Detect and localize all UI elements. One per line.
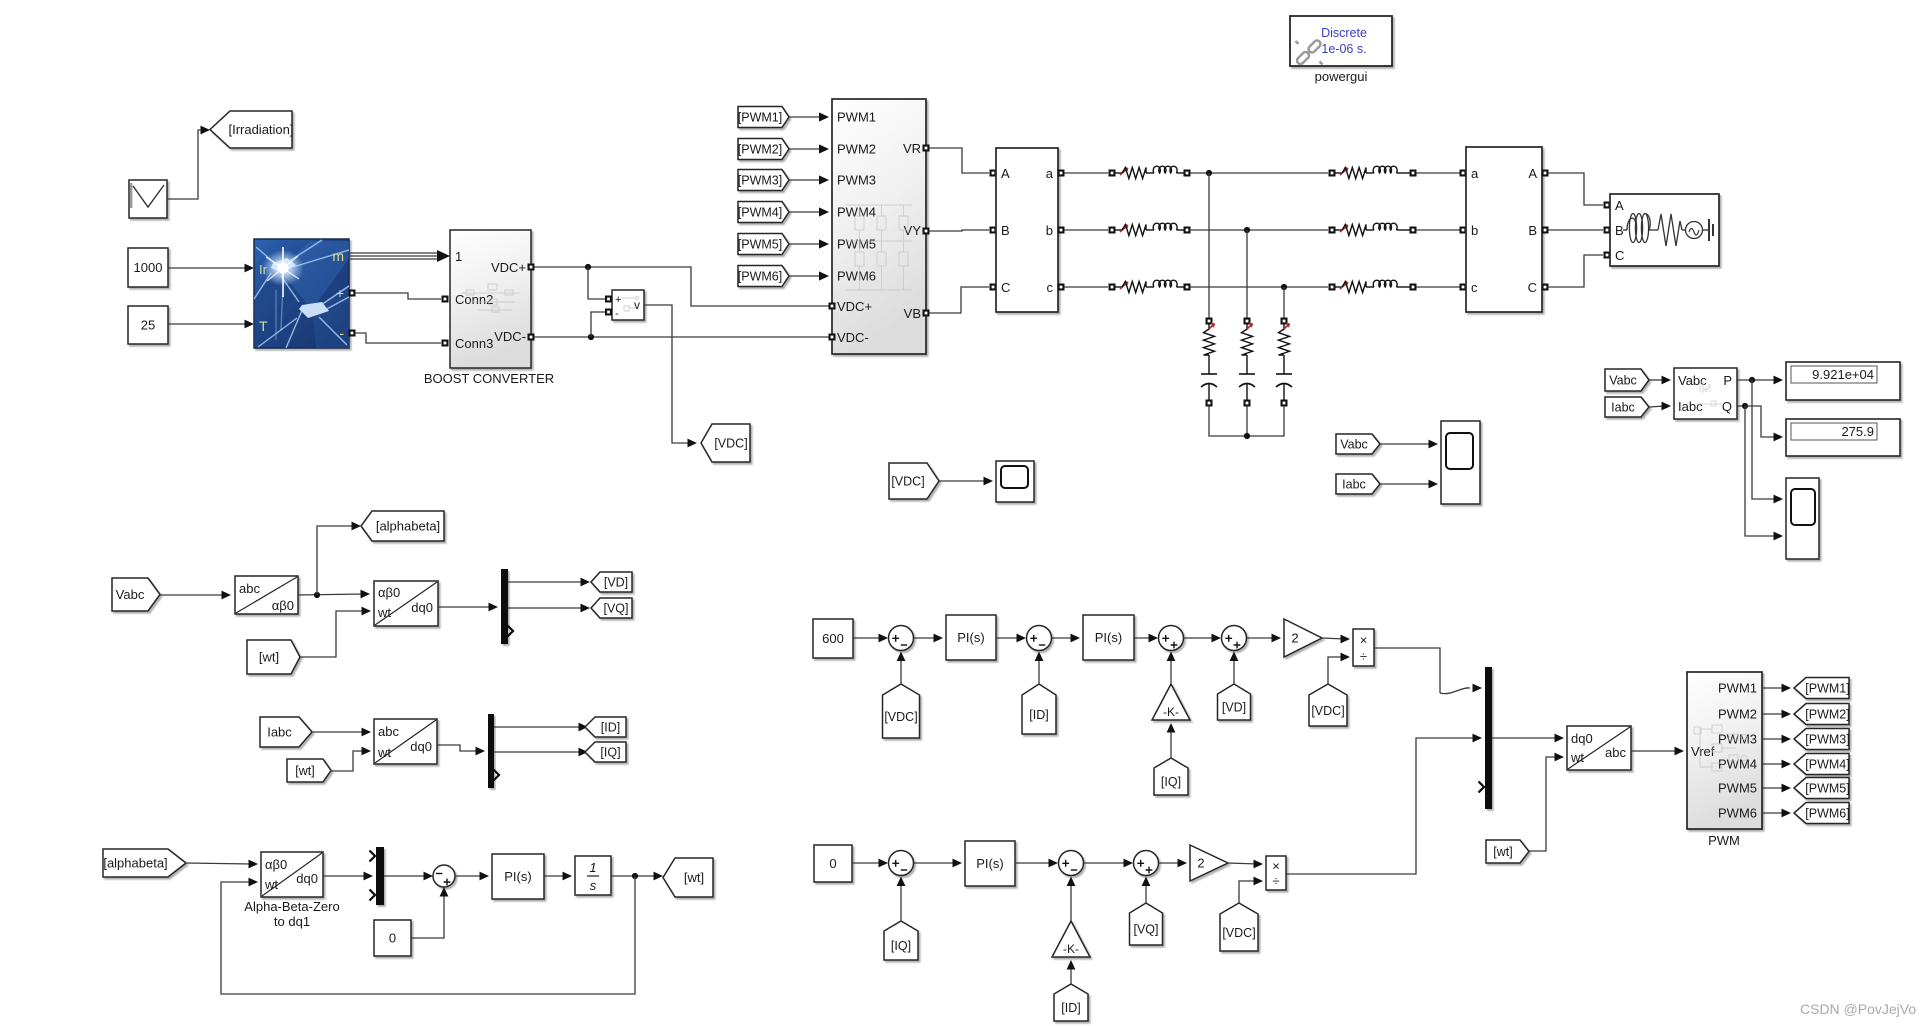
measurement1 B port: [990, 227, 997, 234]
wire wt feedback: [221, 876, 635, 994]
constant 1000: [128, 248, 168, 287]
from tag [PWM1]: [738, 107, 789, 128]
svg-text:T: T: [259, 318, 268, 334]
svg-text:abc: abc: [378, 724, 399, 739]
svg-text:[wt]: [wt]: [1493, 845, 1512, 859]
svg-text:PI(s): PI(s): [957, 630, 984, 645]
wire [VDC] to product2: [1239, 877, 1263, 903]
PV array - port: [349, 330, 356, 337]
wire [wt] to ab0-dq0: [300, 607, 371, 657]
wire [IQ] to sum5: [897, 877, 906, 922]
wire gain2a to product1: [1322, 635, 1350, 644]
junction phase b: [1244, 227, 1250, 233]
svg-text:[Irradiation]: [Irradiation]: [228, 122, 293, 137]
wire Vabc to abc-ab0: [160, 591, 231, 600]
wire 1000 to Ir: [168, 264, 254, 273]
from tag [wt] (V transform): [247, 640, 300, 674]
wire B to source: [1548, 229, 1603, 231]
from tag Iabc (scope): [1336, 474, 1380, 494]
wire VY to B: [929, 230, 989, 231]
svg-text:×: ×: [1360, 633, 1368, 648]
wire Vabc to power block: [1649, 376, 1671, 385]
wire sum8 to PI4: [455, 872, 489, 881]
svg-text:PWM5: PWM5: [837, 237, 876, 252]
svg-text:+: +: [336, 285, 344, 301]
integrator 1/s: [575, 856, 611, 895]
wire VR to A: [929, 148, 989, 173]
shunt RC branch phase a: [1201, 173, 1217, 407]
wire PI4 to integrator: [544, 872, 572, 881]
wire [PWM2] to inverter: [789, 144, 829, 153]
from tag Vabc (power): [1605, 369, 1649, 391]
wire [VDC] to product1: [1328, 653, 1350, 684]
wire 600 to sum1: [853, 634, 888, 643]
wire PV- to Conn3: [355, 333, 441, 343]
PV array block: [254, 239, 349, 348]
wire RL1c to RL2c: [1190, 286, 1328, 288]
svg-text:2: 2: [1291, 631, 1298, 646]
wire P to display1: [1737, 376, 1783, 385]
wire 0 to sum5: [852, 859, 888, 868]
svg-text:wt: wt: [377, 605, 391, 620]
from tag [VD] under sum4: [1218, 684, 1251, 720]
junction RC neutral: [1244, 433, 1250, 439]
mux unconnected input: [1479, 782, 1485, 793]
svg-text:Q: Q: [1722, 399, 1732, 414]
wire [VQ] to sum7: [1142, 877, 1151, 904]
wire measurement1 c to RL1: [1064, 286, 1108, 288]
measurement1 a port: [1058, 170, 1065, 177]
from tag [VDC] under sum1: [883, 684, 920, 738]
svg-text:Iabc: Iabc: [1342, 478, 1366, 492]
svg-text:PWM3: PWM3: [837, 173, 876, 188]
inverter VDC- port: [829, 334, 836, 341]
svg-text:[PWM6]: [PWM6]: [1805, 807, 1849, 821]
svg-text:B: B: [1528, 223, 1537, 238]
wire dq0-abc to PWM: [1631, 747, 1684, 756]
svg-text:275.9: 275.9: [1841, 424, 1874, 439]
signal generator block: [129, 180, 167, 218]
junction VDC-: [588, 334, 594, 340]
svg-text:dq0: dq0: [410, 739, 432, 754]
svg-text:VDC+: VDC+: [491, 260, 526, 275]
Conn3 port: [442, 340, 449, 347]
wire [ID] to sum2: [1035, 652, 1044, 685]
wire -K- to sum6: [1067, 877, 1076, 922]
svg-text:-K-: -K-: [1163, 705, 1179, 719]
constant 0 (Q ref): [814, 845, 852, 882]
from tag [ID] under sum2: [1022, 684, 1056, 734]
wire [PWM5] to inverter: [789, 239, 829, 248]
svg-text:Discrete: Discrete: [1321, 26, 1367, 40]
svg-text:[VD]: [VD]: [1222, 701, 1246, 715]
gain -K- (wL Iq): [1152, 684, 1190, 720]
voltage measurement block: [612, 290, 644, 320]
sum3 (decouple d): [1159, 626, 1184, 651]
measurement1 C port: [990, 284, 997, 291]
svg-text:×: ×: [1272, 859, 1280, 874]
wire sum6 to sum7: [1084, 859, 1133, 868]
demux I: [488, 714, 494, 788]
wire [wt] to dq0-abc: [1529, 753, 1564, 851]
svg-text:[IQ]: [IQ]: [891, 939, 911, 953]
sum6 (decouple q): [1059, 851, 1084, 876]
mux PLL unconnected input 2: [370, 890, 376, 901]
wire integrator to [wt]: [611, 872, 663, 881]
wire measurement1 a to RL1: [1064, 172, 1108, 174]
wire PWM4 out: [1762, 760, 1791, 769]
wire [VDC] to sum1: [897, 652, 906, 685]
svg-text:Iabc: Iabc: [1611, 401, 1635, 415]
wire PI1 to sum2: [996, 634, 1026, 643]
boost VDC- port: [528, 334, 535, 341]
wire product2 to mux: [1286, 734, 1482, 874]
inverter VB port: [923, 310, 930, 317]
voltmeter + port: [605, 296, 612, 303]
from tag [ID] under -K-2: [1054, 984, 1088, 1021]
wire sum7 to gain2b: [1159, 859, 1187, 868]
svg-text:[PWM4]: [PWM4]: [1805, 758, 1849, 772]
svg-text:VDC-: VDC-: [837, 330, 869, 345]
measurement2 B port: [1542, 227, 1549, 234]
measurement2 b port: [1460, 227, 1467, 234]
wire PWM5 out: [1762, 784, 1791, 793]
wire PWM3 out: [1762, 735, 1791, 744]
svg-text:[PWM2]: [PWM2]: [1805, 708, 1849, 722]
scope PQ: [1786, 478, 1819, 559]
svg-text:[ID]: [ID]: [1061, 1001, 1080, 1015]
three-phase VI measurement 1: [996, 148, 1058, 312]
wire measurement1 b to RL1: [1064, 229, 1108, 231]
series RL branch 2 phase b: [1329, 223, 1417, 235]
Conn2 port: [442, 296, 449, 303]
svg-text:[alphabeta]: [alphabeta]: [103, 856, 167, 871]
svg-text:to dq1: to dq1: [274, 914, 310, 929]
svg-text:[PWM4]: [PWM4]: [738, 206, 782, 220]
inverter VR port: [923, 145, 930, 152]
svg-text:A: A: [1528, 166, 1537, 181]
wire signal generator to [Irradiation]: [167, 126, 210, 199]
wire demux to [VD]: [508, 578, 590, 587]
svg-text:powergui: powergui: [1315, 69, 1368, 84]
wire RL2a to measurement2: [1416, 172, 1460, 174]
svg-text:v: v: [634, 298, 640, 312]
measurement2 a port: [1460, 170, 1467, 177]
svg-text:[PWM3]: [PWM3]: [738, 174, 782, 188]
from tag [VDC] (scope): [889, 463, 939, 499]
shunt RC branch phase b: [1239, 230, 1255, 407]
from tag [IQ] under sum5: [884, 921, 918, 960]
wire P to scope2 input1: [1752, 380, 1783, 503]
wire VDC+ to voltmeter +: [588, 267, 605, 299]
svg-text:1: 1: [589, 860, 596, 875]
svg-text:PWM6: PWM6: [1718, 806, 1757, 821]
junction alphabeta: [314, 592, 320, 598]
wire product1 to mux: [1374, 648, 1482, 694]
svg-text:VB: VB: [904, 306, 921, 321]
goto tag [PWM2]: [1794, 704, 1850, 725]
svg-text:αβ0: αβ0: [265, 857, 287, 872]
svg-text:αβ0: αβ0: [272, 598, 294, 613]
constant 0 (PLL): [374, 920, 411, 956]
wire [PWM1] to inverter: [789, 112, 829, 121]
from tag [VDC] under product2: [1220, 903, 1258, 951]
wire [PWM4] to inverter: [789, 207, 829, 216]
series RL branch 1 phase a: [1109, 166, 1191, 178]
goto tag [IQ]: [585, 742, 626, 762]
dq0 to abc transform: [1567, 726, 1631, 770]
abc-wt to dq0 transform (I): [374, 719, 437, 764]
PWM label: [1708, 833, 1740, 848]
svg-text:[IQ]: [IQ]: [600, 746, 620, 760]
svg-text:[VDC]: [VDC]: [891, 475, 924, 489]
svg-text:VDC-: VDC-: [494, 329, 526, 344]
svg-text:[VDC]: [VDC]: [1222, 926, 1255, 940]
goto tag [alphabeta]: [361, 511, 444, 541]
from tag [PWM5]: [738, 234, 789, 255]
wire mux2 to sum8: [384, 872, 433, 881]
PI controller 4 (PLL): [492, 854, 544, 899]
wire gain2b to product2: [1228, 860, 1263, 869]
svg-text:Alpha-Beta-Zero: Alpha-Beta-Zero: [244, 899, 339, 914]
alphabeta to dq1 transform (PLL): [261, 852, 323, 897]
svg-text:PI(s): PI(s): [1095, 630, 1122, 645]
source A port: [1604, 202, 1611, 209]
svg-text:dq0: dq0: [411, 600, 433, 615]
svg-text:A: A: [1615, 198, 1624, 213]
svg-text:wt: wt: [1570, 750, 1584, 765]
series RL branch 2 phase c: [1329, 280, 1417, 292]
goto tag [PWM3]: [1794, 729, 1850, 750]
svg-text:[PWM5]: [PWM5]: [1805, 782, 1849, 796]
demux V: [501, 569, 508, 644]
svg-text:dq0: dq0: [1571, 731, 1593, 746]
wire VDC- to voltmeter -: [591, 312, 605, 337]
powergui label: [1315, 69, 1368, 84]
svg-text:c: c: [1047, 280, 1054, 295]
svg-text:PWM: PWM: [1708, 833, 1740, 848]
mux Vdq: [1485, 667, 1492, 809]
wire RC neutral mid: [1246, 406, 1248, 436]
measurement2 A port: [1542, 170, 1549, 177]
svg-text:[ID]: [ID]: [1029, 708, 1048, 722]
sum8 (PLL): [433, 865, 455, 887]
demux V unconnected out: [508, 626, 514, 637]
svg-text:dq0: dq0: [296, 871, 318, 886]
PI controller 3: [965, 841, 1015, 886]
svg-text:[PWM1]: [PWM1]: [1805, 682, 1849, 696]
wire PWM6 out: [1762, 809, 1791, 818]
goto tag [VDC] (measured): [701, 424, 750, 462]
measurement2 c port: [1460, 284, 1467, 291]
inverter VDC+ port: [829, 303, 836, 310]
sum2 (Id error): [1027, 626, 1052, 651]
svg-text:BOOST CONVERTER: BOOST CONVERTER: [424, 371, 554, 386]
measurement1 c port: [1058, 284, 1065, 291]
wire sum4 to gain2a: [1247, 634, 1281, 643]
svg-text:P: P: [1723, 373, 1732, 388]
svg-text:PWM2: PWM2: [1718, 707, 1757, 722]
svg-text:a: a: [1471, 166, 1479, 181]
sum5 (Iq error outer): [889, 851, 914, 876]
svg-text:C: C: [1528, 280, 1537, 295]
voltmeter - port: [605, 309, 612, 316]
inverter VY port: [923, 228, 930, 235]
svg-text:1: 1: [455, 249, 462, 264]
display Q 275.9: [1786, 419, 1900, 456]
svg-text:[IQ]: [IQ]: [1161, 775, 1181, 789]
svg-text:A: A: [1001, 166, 1010, 181]
wire [VD] to sum4: [1230, 652, 1239, 685]
wire Iabc to power block: [1649, 402, 1671, 411]
goto tag [PWM5]: [1794, 778, 1850, 799]
svg-text:PWM1: PWM1: [837, 110, 876, 125]
svg-text:[VDC]: [VDC]: [714, 437, 747, 451]
PI controller 2: [1083, 615, 1134, 660]
svg-text:[VQ]: [VQ]: [1133, 923, 1158, 937]
wire VDC+ to inverter: [534, 267, 830, 306]
wire PI2 to sum3: [1134, 634, 1158, 643]
svg-text:1e-06 s.: 1e-06 s.: [1321, 42, 1366, 56]
svg-text:B: B: [1615, 223, 1624, 238]
gain 2 (row2): [1190, 845, 1228, 881]
gain 2 (row1): [1284, 619, 1322, 657]
constant 600: [813, 619, 853, 658]
svg-text:0: 0: [389, 931, 396, 946]
svg-text:b: b: [1046, 223, 1053, 238]
wire alphabeta up to goto: [317, 522, 361, 595]
sum7 (add Vq): [1134, 851, 1159, 876]
svg-text:[PWM3]: [PWM3]: [1805, 733, 1849, 747]
svg-text:VR: VR: [903, 141, 921, 156]
from tag [wt] (I transform): [287, 759, 331, 782]
gain -K- (wL Id): [1052, 921, 1090, 957]
abc to alphabeta transform: [235, 576, 298, 614]
goto tag [wt]: [663, 858, 713, 897]
junction phase c: [1281, 284, 1287, 290]
wire Iabc to scope1: [1380, 480, 1438, 489]
wire -K- to sum3: [1167, 652, 1176, 685]
three-phase VI measurement 2: [1466, 147, 1542, 312]
svg-text:c: c: [1471, 280, 1478, 295]
svg-text:0: 0: [829, 856, 836, 871]
wire RL2c to measurement2: [1416, 286, 1460, 288]
svg-text:wt: wt: [377, 745, 391, 760]
svg-text:s: s: [590, 878, 597, 893]
svg-text:αβ0: αβ0: [378, 585, 400, 600]
svg-text:PWM4: PWM4: [837, 205, 876, 220]
alphabeta-wt to dq0 transform: [374, 581, 438, 626]
svg-text:25: 25: [141, 318, 155, 333]
svg-text:[VDC]: [VDC]: [1311, 704, 1344, 718]
wire mux to dq0-abc: [1492, 734, 1564, 743]
svg-text:Vabc: Vabc: [116, 587, 145, 602]
from tag Vabc (transform): [112, 578, 160, 611]
wire Q to display2: [1745, 406, 1783, 441]
wire sum5 to PI3: [914, 859, 962, 868]
boost converter label: [424, 371, 554, 386]
svg-text:Iabc: Iabc: [267, 725, 292, 740]
from tag Vabc (scope): [1336, 434, 1380, 454]
from tag [VQ] under sum7: [1130, 903, 1163, 945]
product divide 1: [1353, 629, 1374, 666]
wire RL2b to measurement2: [1416, 229, 1460, 231]
from tag [PWM3]: [738, 170, 789, 191]
from tag [VDC] under product1: [1309, 684, 1347, 726]
svg-text:2: 2: [1197, 856, 1204, 871]
wire PI3 to sum6: [1015, 859, 1058, 868]
wire sum1 to PI1: [914, 634, 943, 643]
powergui block: [1290, 16, 1392, 66]
PLL transform label: [244, 899, 339, 929]
source C port: [1604, 252, 1611, 259]
inverter subsystem: [832, 99, 926, 354]
goto tag [VD]: [591, 572, 632, 592]
wire PV+ to Conn2: [355, 293, 441, 299]
wire VB to C: [929, 287, 989, 313]
from tag [PWM2]: [738, 139, 789, 160]
svg-text:9.921e+04: 9.921e+04: [1812, 367, 1874, 382]
svg-text:[alphabeta]: [alphabeta]: [376, 519, 440, 534]
product divide 2: [1266, 856, 1286, 890]
wire pll transform to mux2: [323, 872, 373, 881]
scope VDC: [996, 461, 1034, 502]
wire demux to [IQ]: [494, 748, 588, 757]
wire [alphabeta] to pll transform: [186, 860, 258, 869]
series RL branch 1 phase c: [1109, 280, 1191, 292]
svg-text:600: 600: [822, 631, 844, 646]
boost VDC+ port: [528, 264, 535, 271]
from tag [IQ] under -K-: [1154, 758, 1188, 795]
PI controller 1: [946, 615, 996, 660]
sum1 (Vdc error): [889, 626, 914, 651]
svg-text:[VD]: [VD]: [604, 576, 628, 590]
wire ab0-dq0 to demux1: [438, 603, 498, 612]
svg-text:[PWM6]: [PWM6]: [738, 270, 782, 284]
svg-text:PWM4: PWM4: [1718, 757, 1757, 772]
measurement1 b port: [1058, 227, 1065, 234]
svg-text:VDC+: VDC+: [837, 299, 872, 314]
svg-text:Vref: Vref: [1691, 744, 1715, 759]
boost converter subsystem: [450, 230, 531, 368]
three-phase source block: [1610, 194, 1719, 266]
watermark: [1800, 1001, 1916, 1017]
from tag Iabc (power): [1605, 397, 1649, 417]
svg-text:-: -: [339, 325, 344, 341]
measurement2 C port: [1542, 284, 1549, 291]
mux PLL unconnected input 1: [370, 851, 376, 862]
wire Iabc to abc-dq0: [312, 728, 371, 737]
svg-text:Vabc: Vabc: [1340, 438, 1368, 452]
svg-text:PWM1: PWM1: [1718, 681, 1757, 696]
wire [IQ] to -K-: [1167, 723, 1176, 758]
goto tag [VQ]: [591, 598, 632, 618]
wire 0 to sum8: [411, 887, 448, 938]
wire Q to scope2 input2: [1745, 406, 1783, 540]
wire [PWM6] to inverter: [789, 271, 829, 280]
svg-text:C: C: [1001, 280, 1010, 295]
svg-text:÷: ÷: [1272, 874, 1279, 889]
svg-text:-K-: -K-: [1063, 942, 1079, 956]
wire [PWM3] to inverter: [789, 175, 829, 184]
svg-text:[wt]: [wt]: [295, 764, 314, 778]
svg-text:CSDN @PovJejVo: CSDN @PovJejVo: [1800, 1001, 1916, 1017]
wire 25 to T: [168, 320, 254, 329]
svg-text:[ID]: [ID]: [601, 721, 620, 735]
goto tag [PWM1]: [1794, 678, 1850, 699]
junction wt feedback: [632, 873, 638, 879]
svg-text:Ir: Ir: [259, 262, 268, 277]
